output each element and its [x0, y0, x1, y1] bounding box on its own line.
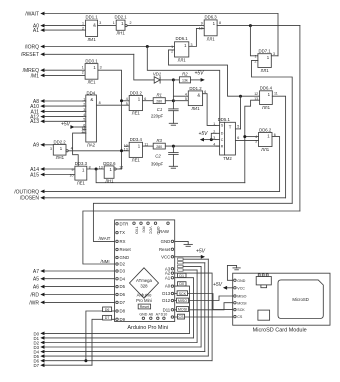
- svg-text:D: D: [221, 132, 224, 136]
- IC Arduino Pro Mini module box: [115, 220, 175, 322]
- wire decode line down/right: [96, 169, 245, 183]
- svg-text:/RD: /RD: [30, 292, 39, 298]
- svg-text:DD2.6: DD2.6: [103, 161, 116, 166]
- svg-text:Reset: Reset: [120, 247, 132, 252]
- IC MicroSD Card Module box: [233, 273, 330, 325]
- svg-text:MISO: MISO: [178, 299, 187, 303]
- svg-text:ТМ2: ТМ2: [223, 156, 232, 161]
- MicroSD pins: [234, 279, 236, 281]
- svg-text:2: 2: [82, 27, 84, 31]
- ground at SD GND pin: [227, 265, 236, 280]
- wire DD6.1 out to DD6.3 pin10: [189, 28, 204, 46]
- svg-text:DD5.1: DD5.1: [218, 117, 231, 122]
- svg-text:D3: D3: [120, 269, 126, 274]
- svg-text:1: 1: [82, 22, 84, 26]
- svg-text:/WAIT: /WAIT: [25, 11, 39, 17]
- wire MISO D12 to SD: [175, 296, 233, 301]
- wire A2 pin to D6 bus: [175, 273, 212, 361]
- svg-text:/M1: /M1: [31, 73, 40, 79]
- svg-text:5: 5: [237, 124, 239, 128]
- wire D8 pin riser to D6 bus: [86, 311, 115, 361]
- svg-text:DD2.1: DD2.1: [115, 15, 128, 20]
- svg-text:GND: GND: [237, 279, 245, 283]
- svg-text:RXI: RXI: [141, 227, 145, 233]
- microSD card outline: [278, 280, 323, 319]
- wire DD7.1 pin2 from RX net: [252, 60, 293, 203]
- svg-text:9: 9: [72, 168, 74, 172]
- svg-text:C: C: [221, 138, 224, 142]
- svg-text:2: 2: [82, 71, 84, 75]
- svg-text:ЛЛ1: ЛЛ1: [262, 105, 271, 110]
- svg-text:13: 13: [99, 165, 103, 169]
- wire CS to SD: [175, 316, 233, 318]
- wire DD5.1 Q up to junction: [240, 96, 242, 129]
- svg-text:DD6.1: DD6.1: [176, 36, 189, 41]
- svg-text:ЛИ1: ЛИ1: [191, 106, 200, 111]
- svg-text:ЛЛ1: ЛЛ1: [261, 147, 270, 152]
- svg-text:C1: C1: [157, 107, 163, 112]
- svg-text:ЛИ1: ЛИ1: [87, 37, 96, 42]
- svg-text:11: 11: [274, 91, 278, 95]
- wire DD6.3 out down right side: [299, 26, 301, 211]
- svg-text:D1: D1: [179, 274, 184, 278]
- node IORQ junction: [146, 45, 149, 48]
- svg-text:+5V: +5V: [194, 71, 204, 77]
- svg-text:DD1.2: DD1.2: [189, 86, 202, 91]
- wire pad risers to data bus: [207, 259, 209, 356]
- wire DD3.4 pin12 stub: [125, 145, 130, 147]
- svg-text:VD1: VD1: [153, 72, 162, 77]
- svg-text:&: &: [197, 92, 200, 97]
- svg-text:VCC: VCC: [237, 286, 245, 290]
- svg-text:&: &: [90, 97, 93, 102]
- wire A1 pin to D1 bus: [175, 278, 194, 338]
- svg-text:2: 2: [130, 21, 132, 25]
- wire DD2.1 out to DD6.3 pin9: [127, 25, 204, 27]
- svg-text:ATmega: ATmega: [136, 278, 153, 283]
- wire DD6.4 pin13 loop: [245, 100, 260, 183]
- svg-text:2: 2: [83, 103, 85, 107]
- wire DD1.2 out to DD5.1 pin1: [203, 94, 216, 126]
- svg-text:GND: GND: [139, 313, 147, 317]
- svg-text:A5: A5: [33, 277, 39, 283]
- svg-text:D6: D6: [105, 308, 110, 312]
- svg-text:1: 1: [213, 122, 215, 126]
- svg-text:D8: D8: [120, 309, 126, 314]
- svg-text:Arduino: Arduino: [137, 293, 152, 298]
- svg-text:10: 10: [70, 173, 74, 177]
- svg-text:RX: RX: [120, 239, 126, 244]
- wire A0 pin to D0 bus: [175, 286, 190, 333]
- svg-text:A13: A13: [30, 119, 39, 125]
- svg-text:MOSI: MOSI: [178, 308, 187, 312]
- svg-text:A1: A1: [165, 275, 171, 280]
- svg-text:6: 6: [144, 97, 146, 101]
- node junction Q net: [239, 95, 242, 98]
- svg-text:D7: D7: [120, 300, 126, 305]
- svg-text:D7: D7: [105, 316, 110, 320]
- svg-text:DD3.2: DD3.2: [130, 90, 143, 95]
- wire DD1.1 out to DD2.1: [98, 25, 117, 27]
- svg-text:A0: A0: [165, 284, 171, 289]
- svg-text:280: 280: [156, 145, 162, 149]
- wire RESET to diode: [134, 54, 154, 80]
- svg-text:R1: R1: [156, 92, 162, 97]
- svg-text:280: 280: [156, 99, 162, 103]
- svg-text:D9: D9: [120, 317, 126, 322]
- svg-text:D7: D7: [34, 363, 40, 368]
- svg-text:+5V: +5V: [198, 131, 208, 137]
- wire DD3.1 out down the middle: [98, 70, 122, 169]
- svg-text:1: 1: [82, 65, 84, 69]
- wire /WAIT riser from DD7.1 output: [277, 14, 279, 56]
- ground below C1: [169, 122, 177, 124]
- Arduino bottom pins: [142, 317, 144, 319]
- svg-text:R: R: [221, 145, 224, 149]
- svg-text:T: T: [229, 124, 232, 129]
- svg-text:ЛЕ1: ЛЕ1: [87, 80, 96, 85]
- svg-text:CS: CS: [237, 315, 243, 319]
- node junction R1/C1: [172, 99, 175, 102]
- wire DD3.3 out to DD2.6: [87, 168, 104, 170]
- svg-text:ЛЕ1: ЛЕ1: [132, 111, 141, 116]
- svg-text:DD6.2: DD6.2: [259, 127, 272, 132]
- svg-text:/NMI: /NMI: [100, 259, 109, 264]
- svg-text:ЛА2: ЛА2: [87, 142, 96, 147]
- wire DD6.4 out to /DOSEN riser: [272, 96, 285, 198]
- wire DD6.1 pin2 feedback net: [169, 50, 260, 96]
- svg-text:ЛЛ1: ЛЛ1: [207, 36, 216, 41]
- svg-text:12: 12: [254, 92, 258, 96]
- svg-text:DD2.2: DD2.2: [54, 139, 67, 144]
- svg-text:390pF: 390pF: [151, 162, 164, 167]
- wire RX net long line: [93, 203, 292, 241]
- svg-text:MicroSD Card Module: MicroSD Card Module: [253, 327, 307, 333]
- svg-text:A9: A9: [33, 143, 39, 149]
- svg-text:1: 1: [83, 97, 85, 101]
- wire SCK D13 to SD: [175, 294, 233, 310]
- wire to DD7.1 pin1: [250, 26, 258, 56]
- svg-text:1: 1: [255, 54, 257, 58]
- svg-text:2: 2: [255, 59, 257, 63]
- wire DD6.2 out to /OUTIORQ riser: [272, 137, 280, 192]
- svg-text:A7: A7: [156, 313, 160, 317]
- svg-text:A1: A1: [33, 28, 39, 34]
- svg-text:3: 3: [83, 108, 85, 112]
- svg-text:/RESET: /RESET: [21, 52, 39, 58]
- wire DD6.2 pin4 stub: [245, 136, 259, 138]
- svg-text:CS: CS: [179, 315, 185, 319]
- svg-text:MOSI: MOSI: [237, 301, 246, 305]
- svg-text:A6: A6: [33, 285, 39, 291]
- node junction DD3.2 pin4: [120, 99, 123, 102]
- svg-text:ЛЕ1: ЛЕ1: [77, 180, 86, 185]
- wire D9 pin riser to D7 bus: [92, 319, 115, 365]
- svg-text:220pF: 220pF: [151, 113, 164, 118]
- svg-text:3: 3: [99, 21, 101, 25]
- svg-text:/DOSEN: /DOSEN: [20, 196, 40, 202]
- svg-text:ЛЕ1: ЛЕ1: [132, 157, 141, 162]
- node junction DD6.2 pin4: [243, 135, 246, 138]
- svg-text:DTR: DTR: [120, 221, 129, 226]
- svg-text:&: &: [93, 22, 96, 27]
- svg-text:D13: D13: [162, 291, 170, 296]
- svg-text:Reset: Reset: [159, 247, 171, 252]
- svg-text:A7: A7: [33, 269, 39, 275]
- svg-text:+5V: +5V: [196, 248, 206, 254]
- svg-text:5: 5: [185, 97, 187, 101]
- svg-text:1: 1: [113, 21, 115, 25]
- wire IORQ branch down: [147, 47, 219, 123]
- svg-text:DD3.1: DD3.1: [85, 59, 98, 64]
- node junction DD3.3 out: [95, 168, 98, 171]
- svg-text:Reset: Reset: [140, 305, 149, 309]
- wire MOSI D11 to SD: [175, 303, 233, 310]
- ground at Arduino GND pin: [175, 241, 189, 244]
- node junction R3/C2: [172, 145, 175, 148]
- SD level shifter chip: [256, 277, 271, 285]
- svg-text:TX: TX: [120, 230, 126, 235]
- Reset button box: [138, 304, 150, 309]
- svg-text:SCK: SCK: [179, 292, 187, 296]
- svg-text:8: 8: [219, 21, 221, 25]
- svg-text:ЛН1: ЛН1: [116, 30, 125, 35]
- svg-text:4: 4: [71, 147, 73, 151]
- svg-text:R3: R3: [156, 138, 162, 143]
- wire junction to DD1.2 pin5: [173, 100, 188, 102]
- Arduino right pins: [171, 240, 173, 242]
- svg-text:3: 3: [100, 65, 102, 69]
- svg-text:9: 9: [201, 21, 203, 25]
- svg-text:5: 5: [83, 118, 85, 122]
- svg-text:13k: 13k: [182, 79, 188, 83]
- ATmega328 diamond: [130, 268, 159, 298]
- svg-text:328: 328: [140, 284, 148, 289]
- svg-text:DD7.1: DD7.1: [259, 48, 272, 53]
- svg-text:SCK: SCK: [237, 308, 245, 312]
- svg-text:DD3.3: DD3.3: [75, 161, 88, 166]
- Arduino left pins: [116, 223, 118, 225]
- svg-text:VCC: VCC: [161, 254, 170, 259]
- Arduino top pins: [133, 222, 135, 224]
- svg-text:8: 8: [99, 101, 101, 105]
- svg-text:ЛН1: ЛН1: [56, 155, 65, 160]
- svg-text:GND: GND: [161, 239, 171, 244]
- wire DD4 pin12 path down to DD3.3: [73, 133, 86, 166]
- node junction DD6.3 out: [249, 24, 252, 27]
- svg-text:/IORQ: /IORQ: [25, 44, 39, 50]
- node junction VD1/R2: [172, 78, 175, 81]
- wire DD2.2 out to DD3.4 pin13: [68, 150, 129, 152]
- svg-text:GND: GND: [120, 255, 130, 260]
- svg-text:DD6.4: DD6.4: [260, 86, 273, 91]
- svg-text:RAW: RAW: [159, 229, 170, 234]
- wire DD7.1 out to /WAIT riser: [271, 55, 278, 57]
- svg-text:R2: R2: [182, 71, 188, 76]
- Arduino side pads A4-A7: [178, 258, 184, 260]
- svg-text:VCC: VCC: [148, 227, 152, 235]
- svg-text:ЛЛ1: ЛЛ1: [178, 58, 187, 63]
- svg-text:A6: A6: [149, 313, 153, 317]
- svg-text:ЛЛ1: ЛЛ1: [261, 68, 270, 73]
- svg-text:D5: D5: [120, 284, 126, 289]
- svg-text:DD1.1: DD1.1: [86, 15, 99, 20]
- svg-text:/WAIT: /WAIT: [99, 236, 111, 241]
- svg-text:ЛН1: ЛН1: [105, 179, 114, 184]
- svg-text:+5V: +5V: [213, 282, 223, 288]
- svg-text:5: 5: [126, 102, 128, 106]
- svg-text:D12: D12: [162, 298, 170, 303]
- svg-text:Arduino Pro Mini: Arduino Pro Mini: [127, 325, 168, 331]
- svg-text:4: 4: [185, 92, 187, 96]
- svg-text:Pro Mini: Pro Mini: [136, 298, 152, 303]
- svg-text:6: 6: [237, 136, 239, 140]
- node junction on vertical: [120, 149, 123, 152]
- svg-text:DD4: DD4: [86, 90, 95, 95]
- wire DD2.6 out to vertical: [116, 168, 121, 170]
- svg-text:A15: A15: [30, 172, 39, 178]
- svg-text:D4: D4: [120, 276, 126, 281]
- svg-text:/OUTIORQ: /OUTIORQ: [14, 189, 39, 195]
- svg-text:+5V: +5V: [61, 121, 71, 127]
- svg-text:D2: D2: [120, 262, 126, 267]
- ground below C2: [169, 165, 177, 167]
- svg-text:3: 3: [50, 147, 52, 151]
- svg-text:MISO: MISO: [237, 295, 246, 299]
- wire DD6.3 out: [217, 25, 300, 27]
- wire D2 net long line: [83, 211, 300, 264]
- SD detect switch square: [258, 310, 270, 320]
- svg-text:MicroSD: MicroSD: [292, 297, 308, 302]
- svg-text:DD6.3: DD6.3: [205, 14, 218, 19]
- svg-text:C2: C2: [155, 154, 161, 159]
- svg-text:TXO: TXO: [134, 227, 138, 235]
- wire VD1 node down + branch DD1.2 pin4: [172, 80, 174, 109]
- svg-text:D6: D6: [120, 292, 126, 297]
- svg-text:D10: D10: [161, 313, 168, 317]
- svg-text:/WR: /WR: [29, 300, 39, 306]
- wire DD3.2 pin4 stub: [122, 100, 130, 102]
- svg-text:1: 1: [171, 45, 173, 49]
- svg-text:D0: D0: [179, 282, 184, 286]
- svg-text:DD3.4: DD3.4: [130, 137, 143, 142]
- svg-text:4: 4: [83, 113, 85, 117]
